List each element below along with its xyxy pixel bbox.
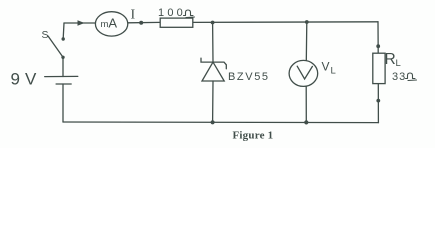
- wire switch to battery: [62, 58, 64, 77]
- node RL top: [376, 44, 380, 48]
- node switch bottom contact: [61, 56, 64, 59]
- node zener bottom junction: [211, 120, 215, 124]
- svg-text:V: V: [322, 60, 330, 74]
- svg-text:33: 33: [392, 71, 406, 83]
- node switch top contact: [62, 37, 65, 40]
- svg-text:BZV55: BZV55: [228, 71, 270, 83]
- wire zener bottom: [212, 81, 214, 122]
- resistor R1 body: [160, 18, 193, 27]
- node RL bottom: [376, 99, 380, 103]
- wire voltmeter bottom: [305, 86, 307, 122]
- label 33 omega glyph: [406, 73, 417, 81]
- wire zener top: [212, 23, 214, 63]
- zener diode D1 triangle: [202, 62, 224, 81]
- current arrow into meter: [78, 20, 85, 25]
- svg-text:100: 100: [158, 7, 186, 19]
- zener diode D1 cathode bar: [201, 58, 226, 69]
- svg-text:L: L: [396, 58, 401, 69]
- node voltmeter top junction: [305, 20, 309, 24]
- battery B1 long plate: [45, 75, 78, 77]
- wire voltmeter top: [305, 22, 308, 61]
- ammeter U1 body: [95, 12, 127, 36]
- svg-text:I: I: [131, 8, 136, 23]
- svg-text:9V: 9V: [11, 70, 42, 89]
- wire RL branch vertical: [377, 22, 379, 53]
- wire battery to bottom: [62, 84, 64, 122]
- wire top horizontal: [64, 22, 96, 24]
- svg-text:L: L: [331, 66, 336, 77]
- wire bottom horizontal: [63, 121, 379, 124]
- node voltmeter bottom junction: [304, 120, 308, 124]
- current arrow after meter: [139, 21, 143, 25]
- label 100 omega glyph: [184, 10, 195, 18]
- resistor RL body: [373, 53, 385, 83]
- battery B1 short plate: [56, 83, 71, 85]
- svg-text:R: R: [385, 51, 396, 68]
- voltmeter U2 body: [289, 60, 318, 86]
- node zener top junction: [211, 21, 215, 25]
- switch S lever: [48, 36, 63, 57]
- wire left branch vertical: [62, 23, 65, 39]
- svg-text:S: S: [42, 29, 49, 41]
- svg-text:Figure 1: Figure 1: [233, 130, 274, 142]
- voltmeter V letter: [297, 66, 312, 79]
